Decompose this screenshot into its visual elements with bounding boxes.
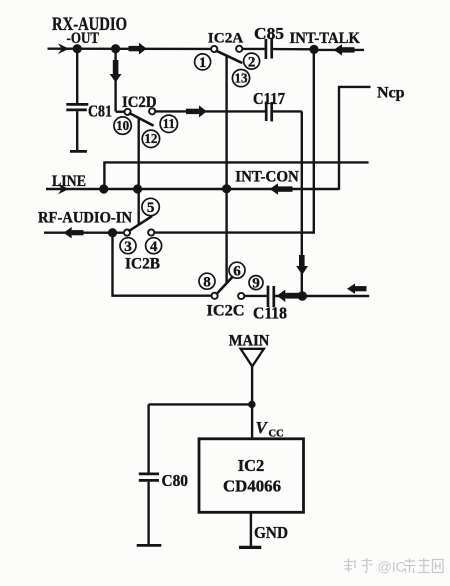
svg-text:C80: C80 (162, 471, 189, 490)
blade IC2A (217, 51, 242, 63)
pin number 5 (142, 198, 159, 215)
node junction J1 (C81 tap) (73, 44, 82, 53)
svg-text:INT-CON: INT-CON (235, 168, 298, 185)
blade IC2B (129, 217, 151, 231)
wire bus row (stub rail) (104, 162, 368, 189)
block arrow left into C118 (277, 290, 302, 302)
svg-text:4: 4 (150, 239, 158, 255)
pin number 12 (142, 130, 159, 147)
wire IC2D blade common down to IC2B blade (137, 118, 139, 225)
op IC2 CD4066 box (199, 439, 304, 513)
wire C117 right side down to C118 junction (301, 111, 303, 296)
analog switch IC2B (120, 198, 162, 272)
svg-text:LINE: LINE (52, 173, 86, 190)
arrowhead into RX-AUDIO-OUT rail (58, 43, 69, 54)
svg-text:@IC: @IC (378, 559, 406, 575)
wire Ncp stub (339, 87, 371, 190)
node junction J6 (222, 184, 231, 193)
pin number 11 (160, 115, 177, 132)
blade IC2D (130, 113, 153, 125)
node junction J7 on RF wire (108, 228, 117, 237)
capacitor C85 (242, 39, 314, 60)
svg-text:11: 11 (163, 116, 175, 131)
watermark zhihu (344, 558, 443, 573)
svg-text:RF-AUDIO-IN: RF-AUDIO-IN (38, 210, 132, 227)
svg-text:CD4066: CD4066 (223, 476, 281, 495)
svg-text:C118: C118 (253, 303, 287, 322)
svg-text:IC2B: IC2B (125, 255, 160, 272)
svg-text:-OUT: -OUT (67, 30, 100, 47)
wire J3 down to IC2B output row (313, 49, 315, 233)
ground bar (239, 546, 261, 549)
contact pin 9 (238, 293, 244, 299)
svg-text:IC2C: IC2C (207, 302, 245, 319)
svg-text:6: 6 (233, 263, 241, 279)
label Vcc (256, 418, 284, 440)
svg-text:8: 8 (203, 274, 211, 290)
block arrow right on top rail (129, 43, 147, 55)
contact pin 10 (125, 109, 131, 115)
contact pin 2 (236, 46, 242, 52)
svg-text:Ncp: Ncp (377, 85, 405, 102)
wire LINE / INT-CON rail (46, 188, 339, 190)
capacitor C118 (244, 286, 369, 308)
svg-text:1: 1 (199, 55, 207, 71)
capacitor C81 (66, 49, 88, 152)
svg-text:GND: GND (254, 523, 288, 542)
arrowhead on LINE wire (58, 184, 69, 195)
svg-text:IC2A: IC2A (208, 30, 244, 46)
block arrow down on C117 drop wire (296, 255, 308, 275)
block arrow left floating on right stub (347, 284, 367, 294)
power symbol MAIN triangle (241, 349, 264, 367)
svg-text:C81: C81 (88, 102, 112, 121)
node junction J2 (IC2D tap) (111, 44, 120, 53)
pin number 1 (195, 54, 211, 70)
svg-text:IC2: IC2 (238, 456, 265, 475)
node junction J3 on INT-TALK wire (309, 45, 318, 54)
pin number 10 (114, 117, 131, 134)
svg-text:V: V (256, 418, 269, 437)
node junction J4 (99, 184, 108, 193)
wire GND from box bottom (250, 512, 252, 546)
pin number 9 (249, 276, 263, 290)
svg-text:MAIN: MAIN (229, 333, 269, 350)
svg-text:13: 13 (235, 71, 248, 86)
svg-text:5: 5 (147, 200, 155, 216)
analog switch IC2A (195, 30, 260, 86)
pin number 2 (244, 53, 260, 69)
contact pin 8 (212, 293, 218, 299)
contact pin 1 (211, 46, 217, 52)
wire INT-TALK stub with block arrow left (314, 44, 364, 55)
wire IC2B pin4 output to INT-TALK drop (154, 231, 313, 233)
analog switch IC2C (199, 262, 263, 319)
svg-text:C117: C117 (253, 89, 285, 108)
label RX-AUDIO-OUT (52, 15, 127, 47)
contact pin 11 (149, 108, 155, 114)
pin number 13 (232, 70, 249, 87)
wire IC2A blade common down long vertical (225, 56, 227, 284)
svg-text:C85: C85 (254, 24, 284, 43)
pin number 4 (146, 238, 162, 254)
svg-text:3: 3 (124, 239, 132, 255)
capacitor C80 (137, 404, 162, 545)
blade IC2C (217, 273, 236, 294)
pin number 8 (199, 273, 215, 289)
wire J7 down and right to IC2C pin8 (113, 233, 212, 296)
wire RX-AUDIO-OUT top rail (48, 48, 215, 51)
wire J9 left to C80 (149, 403, 252, 405)
pin number 6 (229, 262, 245, 278)
contact pin 3 (124, 230, 130, 236)
node junction J9 (C80 tap) (248, 401, 255, 408)
block arrow left on INT-CON wire (270, 183, 293, 194)
svg-text:10: 10 (116, 118, 129, 133)
svg-text:9: 9 (252, 275, 260, 291)
node junction J8 (298, 291, 308, 301)
node junction J5 (133, 184, 142, 193)
wire MAIN down to Vcc (251, 366, 253, 440)
capacitor C117 (266, 102, 302, 122)
svg-text:2: 2 (248, 54, 256, 70)
pin number 3 (120, 238, 136, 254)
wire IC2D pin11 output with block arrow right (155, 105, 265, 117)
wire RF-AUDIO-IN with block arrow left (44, 227, 124, 238)
analog switch IC2D (114, 94, 178, 148)
svg-text:INT-TALK: INT-TALK (290, 30, 361, 47)
wire J2 down to IC2D pin10 with block arrow down (110, 49, 125, 112)
contact pin 4 (148, 229, 154, 235)
svg-text:12: 12 (144, 131, 157, 146)
